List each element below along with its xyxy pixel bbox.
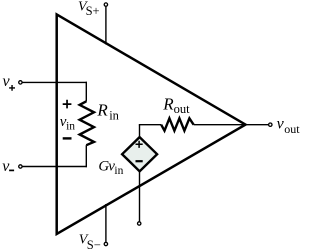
wire: R_out to apex [194, 124, 246, 126]
wire: R_in top lead [85, 82, 87, 102]
svg-text:R: R [162, 94, 174, 113]
svg-text:R: R [96, 100, 108, 119]
terminal circle v_out [269, 123, 272, 126]
svg-text:S+: S+ [86, 4, 100, 18]
wire: diamond top lead [139, 125, 141, 137]
terminal circle V_S+ [104, 3, 107, 6]
svg-text:in: in [114, 165, 123, 177]
svg-text:v: v [2, 158, 10, 175]
terminal circle v+ input [19, 81, 22, 84]
wire: output net from junction through R_out lead [139, 124, 162, 126]
terminal circle below Gv_in [138, 222, 141, 225]
plus sign of v_in marking [63, 100, 72, 109]
resistor R_in [80, 101, 94, 145]
wire: v+ to R_in top [22, 81, 87, 83]
minus sign of v_in marking [63, 137, 72, 139]
terminal circle V_S- [104, 242, 107, 245]
svg-text:S−: S− [87, 238, 101, 250]
minus sign inside diamond [136, 160, 143, 162]
wire: R_in bottom lead [85, 145, 87, 167]
op-amp U1 triangle body [57, 14, 246, 234]
wire: V_S+ supply lead [105, 7, 107, 45]
svg-text:out: out [174, 102, 191, 116]
svg-text:in: in [66, 121, 75, 133]
wire: diamond bottom lead to terminal [139, 171, 141, 221]
svg-text:out: out [284, 122, 300, 136]
plus sign inside diamond [136, 141, 143, 148]
wire: v- to R_in bottom [22, 166, 87, 168]
wire: apex to v_out terminal [246, 124, 269, 126]
wire: V_S- supply lead [105, 204, 107, 242]
svg-text:in: in [109, 108, 119, 122]
dependent source Gv_in diamond [122, 137, 157, 171]
terminal circle v- input [19, 165, 22, 168]
resistor R_out [161, 118, 193, 130]
